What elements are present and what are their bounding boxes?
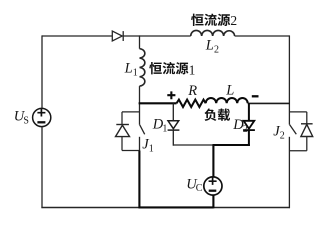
- label R (no sub): [187, 83, 197, 99]
- label D2: [232, 117, 248, 135]
- wire top rail left segment: [42, 35, 112, 37]
- switch J1 blade: [140, 125, 145, 135]
- svg-text:S: S: [23, 115, 29, 126]
- wire UC branch upper: [212, 145, 214, 177]
- wire middle branch (switch J1 to box bottom): [139, 137, 141, 151]
- inductor L2 coil: [191, 30, 235, 36]
- inductor L coil (load): [206, 98, 248, 103]
- voltage source UC circle: [204, 177, 222, 195]
- wire middle branch thick lower leg: [138, 151, 140, 209]
- label L2: [205, 38, 219, 56]
- wire load row left (node to resistor R): [139, 102, 177, 104]
- wire diode D1 branch lower: [172, 130, 174, 146]
- svg-text:2: 2: [230, 13, 237, 28]
- label load (Chinese): [204, 108, 230, 120]
- J2 anti-parallel diode: [301, 124, 313, 137]
- US plus sign: [37, 109, 45, 117]
- svg-text:1: 1: [149, 144, 154, 155]
- diode D2: [243, 121, 255, 130]
- svg-text:2: 2: [243, 124, 248, 135]
- resistor R zigzag: [177, 100, 206, 107]
- UC plus sign: [209, 177, 217, 185]
- svg-text:1: 1: [162, 123, 167, 134]
- svg-text:C: C: [196, 183, 203, 194]
- svg-text:2: 2: [214, 44, 219, 55]
- wire commutation bottom right (UC node to D2) thick: [213, 144, 250, 146]
- label J1: [142, 136, 154, 154]
- inductor L1 coil: [140, 49, 145, 86]
- label US: [14, 109, 29, 127]
- J1 parallel-diode box wires: [122, 112, 140, 151]
- wire left rail upper (to source Us): [41, 35, 43, 108]
- wire middle branch (L1 to switch J1): [139, 86, 141, 125]
- J1 anti-parallel diode: [116, 125, 130, 137]
- plus sign (load row): [167, 91, 175, 99]
- minus sign (load row): [252, 95, 259, 97]
- label L (no sub): [225, 83, 234, 99]
- wire bottom rail left segment: [41, 207, 139, 209]
- switch J2 blade: [290, 125, 297, 135]
- wire top rail right segment: [235, 35, 290, 37]
- svg-text:2: 2: [280, 131, 285, 142]
- wire commutation bottom left (D1 to UC node): [173, 144, 213, 146]
- label constant-current-source-2 (Chinese): [191, 14, 230, 26]
- wire bottom rail thick segment (J1 leg to UC leg): [139, 206, 214, 208]
- label UC: [186, 176, 203, 194]
- svg-text:L: L: [205, 38, 214, 54]
- wire left rail lower: [41, 127, 43, 209]
- diode VD (top rail, unlabeled): [112, 31, 123, 41]
- wire diode D2 branch lower: [248, 130, 250, 146]
- svg-text:R: R: [187, 83, 197, 99]
- wire UC branch lower: [212, 195, 214, 208]
- label D1: [152, 117, 168, 135]
- svg-text:L: L: [225, 83, 234, 99]
- voltage source US circle: [33, 108, 51, 126]
- wire right rail upper: [288, 35, 290, 124]
- wire right rail lower: [288, 137, 290, 208]
- UC minus sign: [209, 190, 217, 192]
- label constant-current-source-1 (Chinese): [149, 62, 188, 74]
- wire middle branch top (node under L1): [139, 35, 141, 48]
- svg-text:1: 1: [189, 63, 196, 78]
- diode D1: [168, 121, 180, 130]
- label J2: [273, 123, 285, 141]
- J2 parallel-diode box wires: [289, 112, 306, 151]
- US minus sign: [37, 121, 45, 123]
- svg-text:L: L: [124, 61, 133, 77]
- wire load row right (L to right rail): [248, 102, 290, 104]
- wire bottom rail right segment: [214, 207, 291, 209]
- wire top rail middle segment: [123, 35, 191, 37]
- wire diode D2 branch upper: [248, 103, 250, 121]
- svg-text:1: 1: [133, 67, 138, 78]
- label L1: [124, 61, 138, 79]
- wire diode D1 branch upper: [172, 103, 174, 121]
